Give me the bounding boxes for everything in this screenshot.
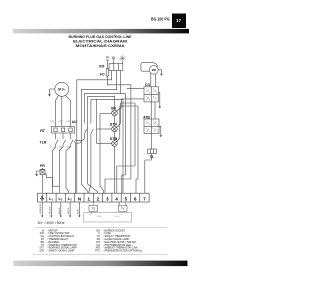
external connection rect — [84, 213, 132, 222]
wire FR staircase to L2 trunk — [45, 174, 58, 186]
wire FR to ground terminal — [42, 175, 44, 194]
wire STB left feed — [97, 143, 113, 145]
relay ATB block — [144, 119, 159, 134]
wire STV to staircase — [117, 103, 135, 127]
flame sensor FR — [41, 168, 45, 170]
svg-text:INT: INT — [99, 64, 104, 68]
svg-text:TA: TA — [149, 155, 154, 159]
wire staircase to terminal 6 — [136, 106, 138, 193]
icon heater stripes — [106, 56, 109, 60]
wire SR top stem — [114, 96, 116, 110]
junction INT cell2 — [116, 89, 117, 90]
icon fan — [119, 55, 125, 61]
svg-text:STB: STB — [110, 137, 118, 141]
svg-text:5 L3: 5 L3 — [67, 146, 71, 148]
svg-text:STV: STV — [110, 123, 118, 127]
svg-text:- PREHEATER FILTER (OPTIONAL): - PREHEATER FILTER (OPTIONAL) — [103, 250, 142, 253]
wire CG to ATB link left — [150, 102, 152, 119]
svg-text:BROWN: BROWN — [50, 206, 52, 214]
top gradient bar — [13, 29, 189, 34]
wire motor lead U — [56, 96, 59, 127]
wire STB to staircase — [117, 106, 138, 142]
wire staircase to terminal 4 — [117, 103, 135, 193]
icon circle — [113, 57, 115, 59]
CG ground arrow — [159, 92, 160, 106]
svg-text:SR: SR — [111, 107, 117, 111]
page number box 17 — [172, 14, 186, 29]
wire INT cell2 to terminal 1 — [81, 71, 116, 194]
wire TLR to terminal L1 — [53, 147, 56, 193]
svg-text:AU: AU — [72, 120, 77, 124]
svg-text:230V~: 230V~ — [97, 216, 102, 218]
fuse FO — [106, 69, 108, 76]
wire lamp feed trunk — [96, 100, 98, 144]
svg-text:3N~ / 400V / 50Hz: 3N~ / 400V / 50Hz — [38, 221, 65, 225]
svg-text:PTC: PTC — [95, 250, 100, 253]
wire RT pole 3 to TLR — [70, 133, 72, 139]
thermostat TS box — [84, 202, 132, 222]
wire SR left feed — [100, 113, 112, 115]
svg-text:RT: RT — [40, 129, 46, 133]
FR chassis arrow — [35, 174, 38, 176]
legend divider bottom — [33, 254, 168, 256]
lamp SR — [112, 110, 118, 116]
lamp STB — [112, 141, 118, 147]
switch INT block — [109, 64, 123, 71]
legend left column — [39, 229, 77, 252]
motor M1 circle — [55, 82, 69, 96]
wire RT pole 2 to TLR — [62, 133, 64, 139]
svg-text:STB: STB — [39, 250, 44, 253]
motor ground arrow — [48, 94, 51, 96]
contactor TLR contact 2 — [63, 140, 66, 147]
svg-text:BLACK: BLACK — [67, 207, 70, 214]
svg-text:GREEN/YEL: GREEN/YEL — [40, 203, 42, 214]
ground terminal symbol — [40, 194, 44, 200]
svg-text:FR: FR — [40, 164, 45, 168]
legend right column — [95, 229, 142, 252]
svg-text:4 T2: 4 T2 — [59, 121, 63, 123]
wire motor lead V — [61, 96, 63, 126]
svg-text:17: 17 — [176, 18, 181, 23]
svg-text:ELECTRICAL DIAGRAM: ELECTRICAL DIAGRAM — [73, 40, 127, 44]
wire TLR to terminal L2 — [59, 147, 63, 193]
svg-text:1 L1: 1 L1 — [50, 146, 54, 148]
contactor TLR contact 1 — [56, 140, 59, 147]
wire staircase to terminal 4 right — [122, 93, 126, 193]
lamp STV — [112, 126, 118, 132]
junction INT cell1 — [111, 79, 112, 80]
switch AU contact 2 — [91, 129, 93, 139]
wire TLR coil to terminal N — [75, 143, 77, 193]
wire FR to chassis — [37, 171, 40, 175]
wire CG to ATB link right — [154, 102, 156, 119]
svg-text:2 T1: 2 T1 — [50, 121, 54, 123]
motor ground wire — [50, 89, 55, 95]
wire to terminal 5 — [122, 100, 124, 194]
svg-text:- SAFETY SIGNAL LAMP: - SAFETY SIGNAL LAMP — [47, 250, 75, 253]
contactor TLR contact 3 — [71, 140, 74, 147]
wire to AU contact 2 — [91, 100, 123, 124]
svg-text:N: N — [78, 196, 81, 201]
wire motor lead W — [66, 95, 71, 126]
svg-text:CG: CG — [145, 83, 151, 87]
timer TA box — [148, 149, 157, 154]
BR leads to CG — [151, 74, 156, 87]
wire AU1 to TLR coil — [81, 139, 84, 141]
terminal strip X1 — [38, 193, 150, 202]
switch AU contact 1 — [84, 129, 86, 139]
junction FR staircase to trunk — [58, 186, 59, 187]
AU2 wire to terminal 1 — [89, 139, 91, 194]
legend divider top — [34, 226, 168, 228]
wire INT cell1 to terminal N — [77, 71, 112, 194]
svg-text:TS: TS — [91, 207, 95, 211]
coil TLR — [75, 140, 82, 143]
wire trunk to terminal 3 left — [100, 114, 104, 194]
contactor CG block — [144, 87, 159, 102]
pin number labels — [50, 121, 70, 149]
svg-text:BLUE: BLUE — [77, 208, 79, 214]
junction SR stem — [114, 96, 115, 97]
wire TLR to terminal L3 — [66, 147, 71, 193]
svg-text:3 L2: 3 L2 — [59, 146, 63, 148]
svg-text:TLR: TLR — [40, 140, 47, 144]
junction lamp trunk — [96, 99, 97, 100]
wire FO fuse to terminal 3 staircase — [105, 76, 131, 193]
svg-text:FO: FO — [100, 73, 105, 77]
wire ATB to TA — [151, 134, 153, 149]
thermal relay RT box — [52, 127, 75, 134]
wire TA to terminal 7 — [145, 154, 152, 194]
junction INT cell3 — [120, 93, 121, 94]
ATB ground arrow — [159, 126, 161, 135]
svg-text:6 T3: 6 T3 — [67, 121, 71, 123]
svg-text:T 3.15A: T 3.15A — [113, 215, 120, 218]
svg-text:BURNING FLUE GAS CONTROL LINE: BURNING FLUE GAS CONTROL LINE — [69, 35, 133, 39]
svg-text:TV: TV — [121, 207, 125, 211]
svg-text:BG 100 PG: BG 100 PG — [151, 16, 170, 21]
bottom gradient bar — [14, 261, 188, 267]
wire RT pole 1 to TLR — [55, 133, 57, 139]
svg-text:M 3~: M 3~ — [58, 88, 65, 92]
supply wires below terminals — [42, 202, 79, 216]
svg-text:ATB: ATB — [143, 115, 150, 119]
component labels — [40, 64, 157, 168]
wire lamp column links — [114, 116, 116, 141]
svg-text:МОНТАЖНАЯ СХЕМА: МОНТАЖНАЯ СХЕМА — [76, 44, 126, 48]
wire STB to terminal 4 — [114, 146, 116, 193]
wire to terminal 2 — [88, 96, 115, 193]
wire STV left feed — [97, 128, 113, 130]
wire INT cell3 to CG — [127, 88, 144, 90]
blower BR — [149, 65, 158, 74]
wire INT cell3 down — [120, 71, 122, 94]
terminal labels — [49, 196, 146, 201]
wire SR to CG — [117, 99, 145, 111]
svg-text:BLACK: BLACK — [58, 207, 61, 214]
wire to AU contact 1 — [84, 93, 125, 123]
thermostat TV box — [118, 205, 127, 211]
wire color labels (rotated) — [40, 203, 79, 214]
